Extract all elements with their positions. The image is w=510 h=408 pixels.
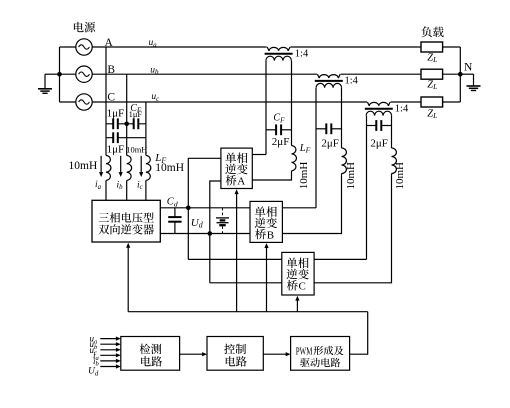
wire source C to bus (60, 101, 76, 103)
svg-text:2μF: 2μF (272, 136, 290, 148)
wire phase line A left (92, 46, 267, 48)
label 逆变 C (287, 269, 298, 280)
pwm box PWM形成及驱动电路 (291, 337, 350, 371)
wire T2 secondary right upper (341, 88, 343, 148)
ground right (473, 74, 475, 86)
label 电源 (74, 22, 84, 32)
wire to left ground (45, 73, 60, 75)
label 负载 (422, 26, 432, 37)
svg-text:10mH: 10mH (394, 162, 406, 190)
capacitor CF3 1uF A-C (113, 131, 118, 144)
ground left (44, 74, 46, 88)
svg-text:A: A (237, 176, 245, 188)
bridge box C 单相逆变桥C (282, 252, 314, 295)
svg-text:10mH: 10mH (126, 144, 147, 154)
wire neutral bus (459, 47, 461, 102)
svg-text:1:4: 1:4 (345, 75, 359, 86)
transformer T3 phase C 1:4 (367, 102, 390, 106)
wire source A to bus (60, 46, 76, 48)
wire DC- rail (160, 233, 250, 235)
svg-text:PWM: PWM (296, 346, 313, 357)
wire bridge A out1 (252, 154, 266, 156)
arrow control to PWM (263, 353, 286, 355)
arrow input ua (100, 338, 116, 340)
bridge box B 单相逆变桥B (250, 201, 282, 242)
wire rail B lower (126, 180, 128, 200)
wire source neutral bus (59, 47, 61, 102)
node DC- rail junction (208, 231, 213, 236)
label 单相 C (287, 258, 298, 269)
wire T1 secondary left (265, 61, 267, 155)
svg-text:C: C (299, 281, 306, 293)
wire bridge A DC+ drop (188, 158, 221, 259)
capacitor CF phase B 2uF (316, 128, 326, 130)
wire rail B upper (126, 74, 128, 155)
label 逆变 A (225, 164, 236, 175)
svg-text:1:4: 1:4 (295, 48, 309, 59)
wire bridge A DC- drop (210, 181, 221, 283)
label 单相 A (225, 153, 236, 164)
current arrow ib (120, 156, 122, 173)
capacitor CF1 1uF A-B (113, 118, 118, 131)
wire rail A upper (105, 47, 107, 155)
inductor LF phase C (392, 148, 397, 174)
wire phase line B right (341, 73, 421, 75)
wire phase line C left (92, 101, 367, 103)
node DC+ rail junction (186, 206, 191, 211)
label 三相电压型 (99, 213, 109, 222)
load ZL phase B (421, 69, 443, 79)
arrow input Ud (100, 366, 116, 368)
label 电路 ctrl (226, 356, 236, 366)
wire phase line C right (391, 101, 421, 103)
svg-text:1μF: 1μF (107, 143, 125, 155)
capacitor CF phase C 2uF (367, 125, 377, 127)
svg-text:1:4: 1:4 (395, 103, 409, 114)
AC source phase A (76, 39, 92, 55)
battery (222, 208, 224, 216)
arrow input ub (100, 343, 116, 345)
wire ZL B to neutral (443, 73, 461, 75)
wire control distribution line (128, 311, 368, 313)
wire to bridge C DC- (210, 282, 282, 284)
svg-text:2μF: 2μF (370, 138, 388, 150)
label 逆变 B (255, 217, 266, 228)
wire LF B to bridge (282, 174, 341, 234)
wire rail C upper (145, 102, 147, 155)
svg-text:10mH: 10mH (155, 162, 184, 174)
wire phase line B left (92, 73, 317, 75)
svg-text:N: N (464, 62, 473, 74)
control arrow into bridge C (296, 300, 298, 312)
control arrow into bridge B (266, 248, 268, 312)
wire cap row1 (106, 123, 146, 125)
label 检测 (140, 344, 151, 354)
capacitor Cd (174, 208, 176, 217)
AC source phase B (76, 66, 92, 82)
wire DC+ rail (160, 207, 250, 209)
inverter box 三相电压型双向逆变器 (92, 200, 160, 242)
wire rail C lower (145, 180, 147, 200)
wire to bridge C DC+ (188, 258, 281, 260)
wire bridge B out1 (282, 207, 316, 209)
inductor bank B 10mH (127, 155, 132, 180)
AC source phase C (76, 94, 92, 110)
inductor bank A 10mH (106, 155, 111, 180)
label 单相 B (255, 206, 266, 217)
arrow detection to control (180, 353, 203, 355)
wire LF A to bridge (252, 171, 291, 180)
transformer T2 phase B 1:4 (317, 74, 340, 78)
svg-text:10mH: 10mH (69, 160, 98, 172)
control arrow into inverter (127, 247, 129, 312)
svg-text:B: B (107, 64, 115, 76)
label 驱动电路 (300, 358, 309, 367)
load ZL phase A (421, 42, 443, 52)
inductor LF phase B (342, 148, 347, 174)
inductor bank C 10mH (146, 155, 151, 180)
current arrow ic (140, 156, 142, 173)
wire PWM feedback (350, 312, 368, 355)
capacitor CF phase A 2uF (266, 129, 276, 131)
arrow input ib (100, 360, 116, 362)
label 桥A (226, 175, 237, 186)
node cap row1 rail B (124, 122, 129, 127)
svg-text:C: C (107, 92, 115, 104)
wire source B to bus (60, 73, 76, 75)
wire LF C to bridge (314, 174, 391, 283)
svg-text:10mH: 10mH (298, 162, 310, 190)
label 电路 det (141, 356, 151, 366)
inductor LF phase A (292, 146, 297, 171)
arrow input ia (100, 354, 116, 356)
transformer T1 phase A 1:4 (267, 47, 290, 51)
wire T3 secondary right upper (391, 116, 393, 148)
current arrow ia (100, 156, 102, 173)
label 桥C (287, 280, 298, 291)
bridge box A 单相逆变桥A (221, 148, 252, 188)
label 桥B (255, 229, 266, 240)
wire ZL C to neutral (443, 101, 461, 103)
wire T2 secondary left (315, 88, 317, 208)
svg-text:10mH: 10mH (345, 162, 357, 190)
control box 控制电路 (207, 337, 263, 371)
wire phase line A right (290, 46, 421, 48)
svg-text:1μF: 1μF (129, 109, 143, 119)
svg-text:2μF: 2μF (321, 137, 339, 149)
capacitor CF2 1uF B-C (134, 118, 139, 131)
wire to right ground (460, 73, 473, 75)
load ZL phase C (421, 97, 443, 107)
wire rail A lower (105, 180, 107, 200)
wire T1 secondary right upper (291, 61, 293, 146)
node N junction (458, 72, 463, 77)
control arrow into bridge A (236, 194, 238, 312)
wire T3 secondary left (366, 116, 368, 260)
arrow input uc (100, 349, 116, 351)
detection box 检测电路 (121, 337, 180, 371)
label 控制 (224, 344, 235, 354)
svg-text:1μF: 1μF (107, 108, 125, 120)
wire bridge C out1 (314, 258, 366, 260)
wire ZL A to neutral (443, 46, 461, 48)
node source neutral junction (57, 72, 62, 77)
wire cap row2 (106, 137, 146, 139)
svg-text:B: B (267, 229, 274, 241)
label 双向逆变器 (99, 225, 110, 235)
